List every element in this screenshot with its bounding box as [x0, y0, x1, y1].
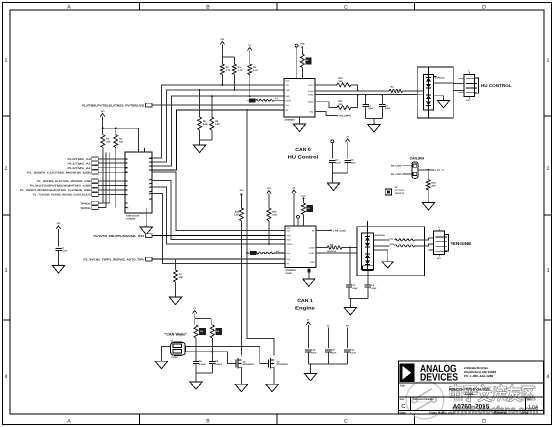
wire cap C1 stem	[365, 95, 367, 105]
wire choke out lower	[415, 244, 434, 250]
svg-text:TSW-110-08: TSW-110-08	[126, 214, 140, 217]
svg-text:CANH: CANH	[308, 90, 314, 93]
svg-text:1M: 1M	[216, 330, 219, 333]
document number	[453, 403, 490, 410]
wire Rb down	[268, 221, 270, 245]
wire wake net2	[185, 351, 236, 364]
svg-text:1M: 1M	[200, 330, 203, 333]
transceiver U2 CAN1	[285, 226, 316, 267]
svg-text:VIO: VIO	[285, 84, 289, 87]
svg-text:CANL: CANL	[309, 252, 315, 255]
vcc arrow Rb	[267, 187, 272, 208]
pin tab D2 bottom	[363, 221, 374, 271]
node net label conn PL4	[94, 234, 145, 238]
wire wake net1	[185, 346, 268, 364]
svg-text:HU Control: HU Control	[288, 154, 319, 159]
svg-text:ACM: ACM	[390, 243, 395, 246]
capacitor C2	[379, 104, 391, 110]
svg-text:5: 5	[126, 180, 127, 183]
wire R5 down	[249, 75, 251, 98]
wire R9 to U1	[301, 68, 303, 79]
wire Ra down	[240, 221, 242, 355]
connector boxes header inputs	[92, 157, 98, 210]
ground below Q1	[235, 384, 248, 392]
value label U2	[285, 269, 296, 275]
node net label conn PL5	[84, 258, 145, 262]
logo Analog Devices text	[420, 364, 458, 384]
node RS_CAN1 label	[391, 173, 402, 176]
wire mid column a	[105, 153, 107, 208]
svg-text:NUP2105L: NUP2105L	[435, 76, 446, 79]
svg-text:4.7K: 4.7K	[253, 69, 258, 72]
wire HU conn stubs	[458, 78, 464, 93]
svg-text:RS_CAN0: RS_CAN0	[391, 164, 402, 167]
svg-text:10K: 10K	[431, 184, 436, 187]
svg-text:9: 9	[126, 202, 127, 205]
svg-text:ADM3053: ADM3053	[285, 269, 296, 272]
resistor R4	[232, 64, 242, 75]
svg-text:PL/AUTO/SPI/TMS/ADR/TMS_USB: PL/AUTO/SPI/TMS/ADR/TMS_USB	[30, 185, 91, 188]
ferrite FB3 designator box	[246, 251, 256, 255]
capacitor C9	[209, 360, 223, 366]
node CAN1RH label	[410, 156, 425, 160]
transistor Q1	[236, 358, 254, 369]
svg-text:NC7SZ04: NC7SZ04	[395, 189, 405, 192]
svg-text:47pF: 47pF	[385, 107, 391, 110]
wire FB2 to TVS	[402, 90, 417, 92]
terminal cap C3 top	[331, 140, 334, 159]
value label D2	[375, 234, 386, 237]
inductor T1a	[390, 237, 415, 241]
resistor R15	[302, 203, 313, 215]
ground below Q2	[266, 384, 279, 392]
terminal circle U1 vdd	[295, 44, 298, 47]
wire FB4 to TVS2	[342, 247, 357, 249]
resistor R16	[194, 325, 206, 338]
svg-text:10K: 10K	[179, 276, 184, 279]
wire R12 to ground	[427, 190, 429, 203]
wire CANH line	[315, 90, 389, 92]
connector P2 ENGINE	[433, 226, 448, 260]
wire R7 to ground	[175, 282, 177, 297]
wire R6a up	[199, 89, 201, 117]
wire choke feed upper	[373, 239, 389, 241]
svg-text:8: 8	[126, 194, 127, 197]
svg-text:47pF: 47pF	[371, 287, 377, 290]
svg-text:CON20A: CON20A	[126, 217, 136, 220]
ground below R7	[169, 297, 182, 305]
ground below wake caps	[190, 382, 203, 390]
svg-text:VCC2: VCC2	[308, 84, 314, 87]
wire R6b up	[211, 95, 213, 117]
svg-text:HU CONTROL: HU CONTROL	[481, 83, 512, 88]
node ENGINE label	[451, 241, 472, 246]
resistor R10	[337, 77, 351, 87]
inductor T1b	[390, 243, 415, 247]
svg-text:Friday, May 10, 2015: Friday, May 10, 2015	[429, 412, 454, 415]
svg-text:2: 2	[547, 166, 550, 172]
wire TVS internal left	[417, 91, 423, 95]
svg-text:C: C	[344, 418, 348, 424]
wire U2 CANH	[316, 247, 327, 249]
wire J3 pin1 to ground	[161, 346, 170, 361]
ground below J3	[155, 361, 168, 369]
node PL3/CAN0 net label	[82, 104, 144, 108]
connector box PL3	[146, 103, 152, 107]
svg-text:GND2: GND2	[308, 101, 314, 104]
svg-text:CANH: CANH	[309, 247, 315, 250]
svg-text:# RS_CAN1: # RS_CAN1	[333, 229, 346, 232]
svg-text:2: 2	[126, 162, 127, 165]
value label J1	[126, 214, 140, 220]
svg-text:RS_CAN1: RS_CAN1	[391, 173, 402, 176]
svg-text:RXD: RXD	[286, 239, 291, 242]
ground below C1 C2	[368, 125, 381, 133]
svg-text:PL_IN/SPI_CLK/TMS_MS/SUB_USB: PL_IN/SPI_CLK/TMS_MS/SUB_USB	[27, 171, 91, 174]
resistor R1	[101, 135, 111, 148]
wire U2 top stub2	[297, 215, 300, 226]
svg-text:10K: 10K	[119, 141, 124, 144]
svg-text:11: 11	[149, 198, 151, 201]
svg-text:A0760–2015: A0760–2015	[453, 403, 490, 410]
svg-text:A: A	[67, 418, 71, 424]
svg-text:15: 15	[148, 182, 150, 185]
svg-text:“CAN Wake”: “CAN Wake”	[164, 332, 187, 336]
svg-text:PL2/TMS_A1: PL2/TMS_A1	[68, 167, 92, 170]
wire U2 top stub1	[292, 187, 296, 226]
node CAN0 section label	[288, 147, 319, 160]
wire TVS1 to HU conn	[453, 84, 464, 91]
resistor R11	[337, 100, 351, 110]
wire choke out upper	[415, 238, 434, 240]
wire vertical net B	[247, 110, 274, 355]
svg-text:Date:: Date:	[400, 412, 407, 415]
capacitor C11	[325, 349, 337, 355]
wire PL4 line	[152, 235, 285, 237]
svg-text:PL/SVTR_ERL/PPL/MS/V62L_RT2: PL/SVTR_ERL/PPL/MS/V62L_RT2	[94, 234, 145, 238]
wire R4 down	[233, 75, 235, 91]
svg-text:B: B	[206, 5, 210, 11]
svg-text:ADuC-Ser873 EVAL-KIT: ADuC-Ser873 EVAL-KIT	[449, 388, 490, 392]
wire bus CAN1 line1	[152, 172, 285, 231]
resistor R6a	[198, 117, 208, 130]
svg-text:19: 19	[148, 161, 150, 164]
svg-text:VCC: VCC	[301, 195, 306, 198]
svg-text:0.1uF: 0.1uF	[61, 250, 67, 253]
resistor R5	[248, 64, 258, 75]
vcc arrow R5	[248, 44, 252, 64]
wire TVS internal right	[434, 83, 454, 101]
wire resistor top join	[102, 127, 139, 134]
svg-text:Title: Title	[400, 385, 406, 388]
wire bus CAN0 line1	[152, 85, 284, 158]
svg-text:4: 4	[5, 374, 8, 380]
svg-text:47pF: 47pF	[352, 287, 358, 290]
connector box PL4	[146, 234, 152, 238]
svg-text:Engine: Engine	[295, 305, 316, 310]
wire CANL line	[315, 94, 417, 96]
vcc arrow wake	[193, 307, 197, 318]
svg-text:CAN: CAN	[465, 392, 473, 396]
svg-text:D: D	[482, 5, 486, 11]
svg-text:1.0A: 1.0A	[528, 404, 539, 410]
svg-text:R14: R14	[272, 211, 277, 214]
node net label c11	[327, 325, 330, 349]
jumper J2 CAN1RH	[412, 162, 418, 179]
wire caps join	[366, 107, 383, 125]
wire U1 gnd stub	[299, 117, 301, 124]
svg-text:6: 6	[126, 184, 127, 187]
resistor Rb	[267, 208, 277, 221]
wire bus CAN1 line4	[152, 194, 285, 264]
resistor R7	[174, 270, 184, 282]
svg-text:R13: R13	[235, 211, 240, 214]
svg-text:CANL: CANL	[308, 94, 314, 97]
wire U2 gnd stub	[307, 267, 310, 279]
svg-text:A: A	[67, 5, 71, 11]
ferrite FB1 designator box	[247, 99, 256, 103]
wire R11 up	[351, 94, 359, 108]
svg-text:NUP2105L: NUP2105L	[375, 234, 386, 237]
vcc arrow trio	[306, 319, 310, 348]
svg-text:20: 20	[148, 157, 150, 160]
svg-text:GND: GND	[310, 261, 315, 264]
wire R1 column down	[102, 148, 104, 204]
svg-text:1: 1	[5, 58, 8, 64]
svg-text:PL0/TMS_A0: PL0/TMS_A0	[68, 158, 92, 161]
svg-text:NTR4003N: NTR4003N	[277, 363, 288, 366]
wire R17 down	[211, 338, 213, 361]
wire bus CAN0 line2	[152, 90, 284, 162]
svg-text:DEVICES: DEVICES	[420, 373, 458, 384]
svg-text:10: 10	[126, 207, 128, 210]
svg-text:3: 3	[547, 268, 550, 274]
wire CANH branch down	[349, 248, 351, 285]
title text	[449, 388, 490, 397]
svg-text:ADM3053: ADM3053	[284, 119, 295, 122]
wire jumper to R12	[418, 169, 444, 172]
wire R2 column down	[115, 148, 117, 208]
svg-text:16: 16	[148, 179, 150, 182]
capacitor C5	[346, 284, 358, 290]
svg-text:of 16: of 16	[522, 412, 529, 415]
svg-text:2: 2	[5, 166, 8, 172]
value label D1	[434, 76, 446, 79]
svg-text:TXD: TXD	[285, 89, 290, 92]
ferrite FB1	[256, 97, 284, 101]
capacitor C10	[305, 349, 317, 355]
svg-text:VCC: VCC	[300, 42, 305, 45]
svg-text:10uF: 10uF	[331, 351, 337, 354]
ferrite FB3	[255, 250, 285, 254]
wire R16 down	[195, 338, 197, 361]
wire R15 top	[301, 195, 306, 203]
ground inside TVS1	[437, 100, 450, 108]
ground below C3 C4	[327, 183, 340, 191]
svg-text:17: 17	[148, 169, 150, 172]
wire loop R11	[315, 102, 337, 108]
svg-text:1.5K: 1.5K	[272, 214, 277, 217]
wire R6 bottoms join	[200, 130, 212, 145]
svg-text:C: C	[344, 5, 348, 11]
resistor R9	[300, 54, 311, 68]
svg-text:10uF: 10uF	[311, 351, 317, 354]
wire Q2 source	[273, 367, 275, 384]
resistor R6b	[210, 117, 220, 130]
wire U2 RS right	[316, 229, 346, 232]
date row	[400, 412, 529, 415]
resistor R17	[210, 325, 222, 338]
svg-text:74LCX?A: 74LCX?A	[395, 192, 405, 195]
svg-text:*ENGINE: *ENGINE	[451, 241, 472, 246]
svg-text:B: B	[206, 418, 210, 424]
diode array D1	[423, 67, 433, 118]
ground below U1	[293, 124, 306, 132]
svg-text:0.1uF: 0.1uF	[335, 161, 341, 164]
node HU CONTROL label	[481, 83, 512, 88]
svg-text:R10: R10	[338, 77, 343, 80]
suppressor box D2 outline	[357, 227, 424, 276]
svg-text:1: 1	[126, 158, 127, 161]
svg-text:CAN 0: CAN 0	[295, 147, 311, 152]
svg-text:R12: R12	[431, 181, 436, 184]
svg-text:0.01uF: 0.01uF	[199, 363, 207, 366]
svg-text:S?N-LOWPR: S?N-LOWPR	[337, 115, 351, 118]
svg-text:2.2K: 2.2K	[203, 123, 208, 126]
watermark elecfans	[406, 381, 539, 419]
svg-text:NTR4003N: NTR4003N	[243, 363, 254, 366]
rev label	[527, 398, 539, 410]
wires header inputs	[98, 159, 125, 208]
svg-text:Ph: 1–800–444–1268: Ph: 1–800–444–1268	[464, 374, 493, 378]
ferrite FB4	[327, 243, 342, 253]
capacitor C3	[329, 159, 341, 165]
capacitor C7	[55, 247, 67, 253]
svg-text:CON2: CON2	[172, 356, 179, 359]
svg-text:VCC: VCC	[286, 227, 291, 230]
svg-text:# R?_??: # R?_??	[435, 169, 445, 172]
svg-text:PL1/TMS_A1: PL1/TMS_A1	[68, 162, 92, 165]
wire U2 top stub3	[303, 215, 305, 227]
connector box PL5	[146, 257, 152, 261]
wire cap C2 stem	[381, 95, 383, 105]
address text	[464, 366, 496, 378]
svg-text:Sheet 15: Sheet 15	[496, 412, 507, 415]
svg-text:R11: R11	[338, 100, 343, 103]
wire caps wake join	[196, 363, 212, 382]
node header input net labels	[20, 158, 92, 210]
logic gate U5 symbol	[385, 189, 391, 195]
resistor R3	[220, 64, 230, 75]
svg-text:2.2K: 2.2K	[215, 123, 220, 126]
wire R10 to junction	[351, 85, 359, 92]
capacitor C1	[362, 104, 374, 110]
svg-text:VDDH: VDDH	[285, 99, 291, 102]
svg-text:TRICK: TRICK	[80, 202, 91, 205]
connector J1 body	[125, 148, 152, 213]
svg-text:CAN 1: CAN 1	[297, 298, 313, 303]
svg-text:4: 4	[547, 374, 550, 380]
capacitor C4	[345, 159, 357, 165]
suppressor box D1 outline	[417, 67, 453, 118]
node RS_CAN0 label	[391, 164, 402, 167]
wire jumper pin2	[402, 173, 412, 175]
wire bus CAN1 line3	[152, 187, 285, 244]
svg-text:1.5K: 1.5K	[234, 214, 239, 217]
wire jumper pin1	[402, 164, 412, 166]
svg-text:10uF: 10uF	[351, 161, 357, 164]
svg-text:PL_IN/SPI_MOSI/CSL/IO/TMS_TLK/: PL_IN/SPI_MOSI/CSL/IO/TMS_TLK/SUB_USB	[20, 189, 91, 192]
logo Analog Devices triangle	[399, 363, 414, 382]
vcc text U1	[300, 42, 305, 54]
svg-text:4.7K: 4.7K	[226, 69, 231, 72]
vcc arrow C4	[346, 136, 350, 159]
value label U5	[395, 186, 405, 195]
resistor R2	[114, 135, 124, 148]
svg-text:VCC: VCC	[285, 80, 290, 83]
wire R12 stem	[427, 170, 429, 180]
vcc arrow left low	[56, 222, 61, 246]
vcc arrow left	[100, 110, 105, 128]
wire CANH upper	[315, 84, 337, 86]
wire U2 CANL	[316, 252, 357, 254]
wire TVS2 center tap	[373, 250, 387, 262]
svg-text:RXD: RXD	[285, 95, 290, 98]
wire Q1 source	[240, 367, 242, 384]
ground below J1	[140, 227, 153, 235]
ground inside TVS2	[382, 262, 393, 268]
wire C7 to ground	[58, 250, 60, 265]
wire RS2 label	[315, 112, 351, 118]
wire resistor tops	[222, 57, 234, 64]
capacitor C6	[365, 284, 377, 290]
svg-text:Document Number: Document Number	[413, 398, 434, 401]
value label U1	[284, 119, 295, 122]
ferrite FB2	[388, 86, 403, 96]
svg-text:Rev: Rev	[527, 398, 532, 401]
wire trio join	[308, 352, 347, 374]
wire wake tops	[195, 319, 212, 325]
svg-text:18: 18	[148, 165, 150, 168]
wire PL3 to CAN0 pin5	[152, 104, 284, 106]
connector J3 wake	[171, 339, 186, 359]
diode array D2	[362, 227, 374, 270]
wire PL5 line	[152, 258, 285, 260]
svg-text:10K: 10K	[106, 141, 111, 144]
node CAN Wake label	[164, 332, 187, 336]
wire to R7	[175, 259, 177, 270]
wire U1 top stub1	[296, 47, 298, 79]
transceiver U1 CAN0	[284, 79, 315, 118]
wire D2 bottom to C6	[367, 270, 369, 285]
svg-text:47pF: 47pF	[368, 107, 374, 110]
capacitor C12	[344, 349, 356, 355]
ground below R6	[193, 145, 206, 153]
svg-text:PL_IN/TMS_ELK/TMS_MS/SUB_USB: PL_IN/TMS_ELK/TMS_MS/SUB_USB	[37, 180, 91, 183]
svg-text:3: 3	[126, 167, 127, 170]
resistor R12	[426, 180, 436, 190]
svg-text:7: 7	[126, 189, 127, 192]
ground below U2	[303, 279, 316, 287]
node CAN1 section label	[295, 298, 316, 311]
title block frame	[398, 361, 543, 414]
size row labels	[400, 398, 435, 410]
wire C5 C6 join	[349, 287, 368, 308]
wire RS line	[152, 109, 284, 170]
wire choke feed lower	[373, 245, 389, 247]
vcc arrow Ra	[239, 189, 244, 208]
svg-text:0.1uF: 0.1uF	[350, 351, 356, 354]
